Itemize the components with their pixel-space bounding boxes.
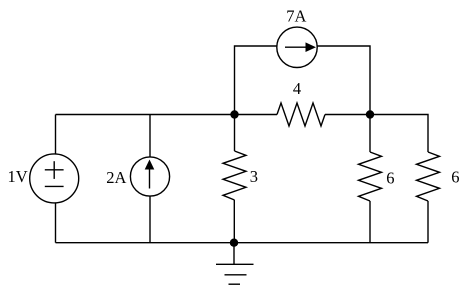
wire bottom rail right (ground node to right branch) bbox=[234, 242, 428, 244]
wire top rail left segment (1V top to 2A top) bbox=[56, 114, 151, 116]
wire node A to R4 left lead bbox=[235, 114, 278, 116]
current source I1 (2A) with up arrow bbox=[130, 157, 169, 196]
wire node A to R3 top lead bbox=[234, 115, 236, 152]
svg-text:6: 6 bbox=[451, 168, 459, 187]
svg-text:2A: 2A bbox=[106, 168, 126, 187]
wire R5 bottom lead bbox=[369, 201, 371, 243]
current source I2 (7A) with right arrow bbox=[277, 27, 317, 67]
resistor R5 (6 ohm) vertical zigzag bbox=[359, 152, 382, 201]
wire bottom rail left (1V to ground node) bbox=[56, 242, 235, 244]
svg-text:4: 4 bbox=[293, 79, 301, 98]
wire R3 bottom lead to ground node bbox=[233, 200, 235, 243]
ground node junction dot bbox=[230, 239, 238, 247]
wire 2A bottom lead bbox=[149, 197, 151, 243]
wire 1V bottom lead bbox=[55, 203, 57, 243]
wire 1V top lead bbox=[55, 115, 57, 155]
wire node B right then down to R6 bbox=[370, 115, 428, 153]
wire 2A top lead bbox=[149, 115, 151, 158]
resistor R4 (4 ohm) horizontal zigzag bbox=[277, 103, 325, 126]
voltage source V1 (1V) with polarity marks bbox=[30, 154, 79, 203]
resistor R3 (3 ohm) vertical zigzag bbox=[223, 151, 246, 200]
svg-text:1V: 1V bbox=[8, 167, 28, 186]
ground symbol bbox=[216, 243, 254, 285]
wire R4 right lead to node B bbox=[325, 114, 370, 116]
node B junction dot bbox=[366, 110, 374, 118]
wire 7A branch: node A up then right bbox=[235, 46, 278, 115]
wire R6 bottom lead bbox=[427, 201, 429, 243]
wire 7A branch: circle right to node B bbox=[317, 46, 370, 115]
resistor R6 (6 ohm) vertical zigzag bbox=[417, 152, 440, 201]
svg-text:7A: 7A bbox=[286, 7, 306, 26]
svg-text:6: 6 bbox=[386, 169, 394, 188]
wire top rail right segment (2A top to node A) bbox=[150, 114, 235, 116]
svg-text:3: 3 bbox=[250, 167, 258, 186]
node A junction dot bbox=[230, 110, 238, 118]
wire node B to R5 top lead bbox=[369, 115, 371, 153]
